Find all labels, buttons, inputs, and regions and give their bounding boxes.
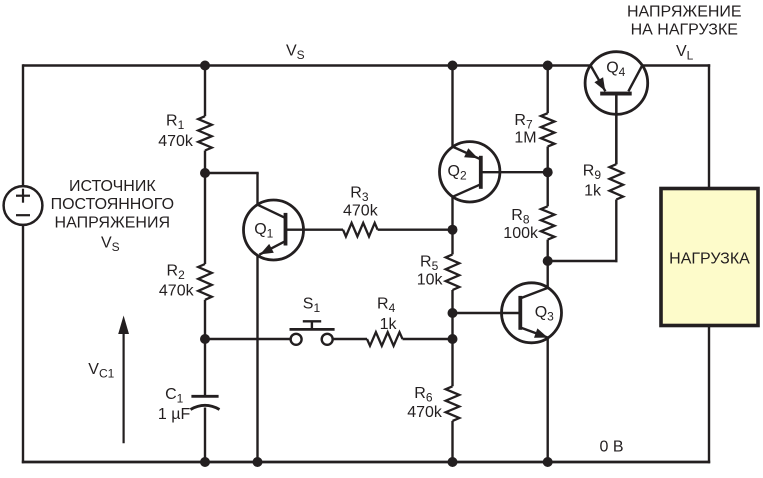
svg-text:100k: 100k xyxy=(503,225,539,242)
svg-text:НА НАГРУЗКЕ: НА НАГРУЗКЕ xyxy=(631,22,738,39)
svg-text:1M: 1M xyxy=(514,130,536,147)
svg-text:1k: 1k xyxy=(380,316,398,333)
svg-text:НАПРЯЖЕНИЕ: НАПРЯЖЕНИЕ xyxy=(627,4,742,21)
svg-text:470k: 470k xyxy=(158,133,194,150)
svg-text:470k: 470k xyxy=(343,203,379,220)
svg-text:ПОСТОЯННОГО: ПОСТОЯННОГО xyxy=(51,196,174,213)
svg-text:ИСТОЧНИК: ИСТОЧНИК xyxy=(69,178,156,195)
svg-text:470k: 470k xyxy=(407,404,443,421)
svg-text:НАПРЯЖЕНИЯ: НАПРЯЖЕНИЯ xyxy=(55,215,170,232)
svg-text:1 µF: 1 µF xyxy=(158,406,191,423)
svg-text:1k: 1k xyxy=(584,182,602,199)
svg-text:10k: 10k xyxy=(417,272,444,289)
svg-text:470k: 470k xyxy=(159,283,195,300)
svg-text:НАГРУЗКА: НАГРУЗКА xyxy=(669,250,750,267)
svg-text:0 В: 0 В xyxy=(600,438,624,455)
